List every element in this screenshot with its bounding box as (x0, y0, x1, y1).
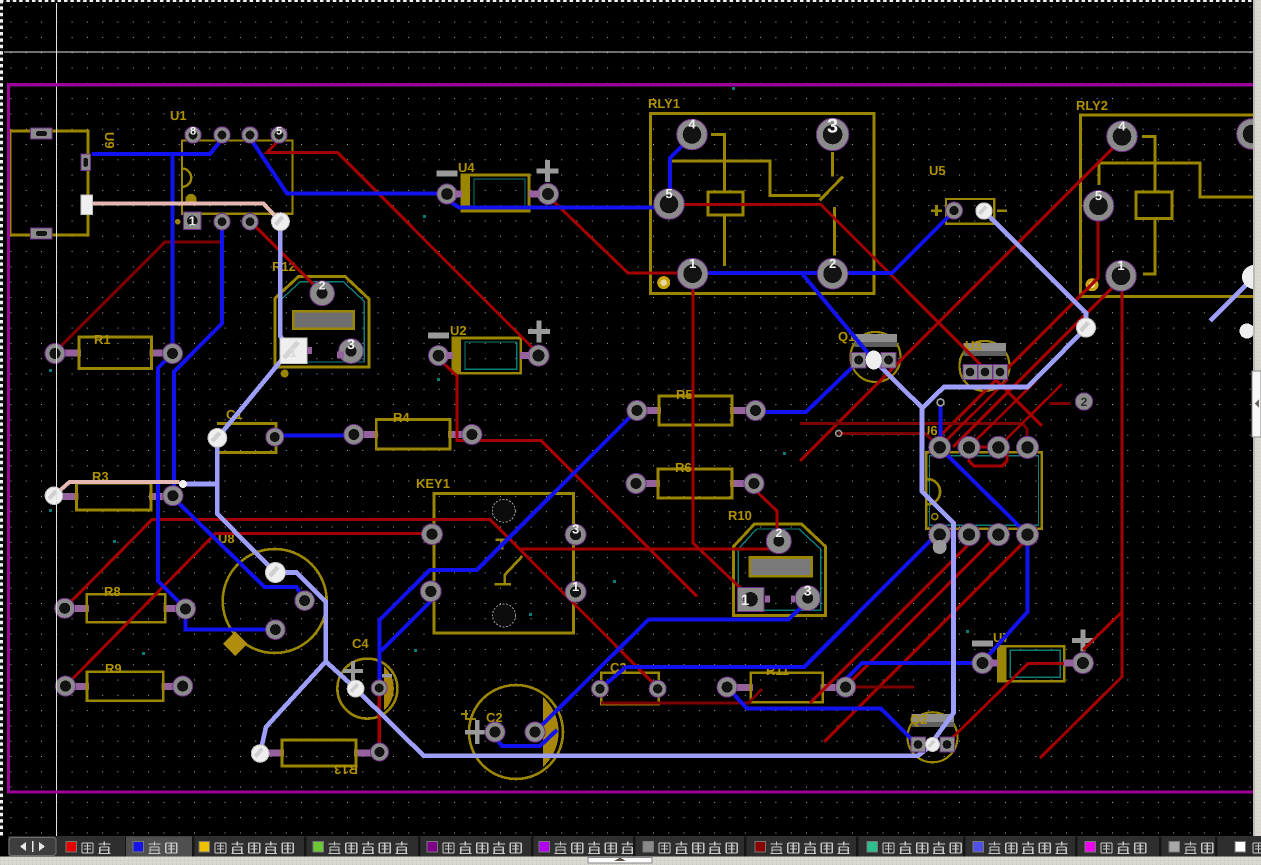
resistor R1 (61, 349, 81, 356)
svg-text:3: 3 (572, 522, 579, 537)
R3 pad2 (163, 486, 183, 506)
wire red U1.5 to U2.+ (267, 140, 538, 353)
C3 pad2 (649, 680, 666, 697)
wire red RLY2.4 diag SW (800, 139, 1122, 461)
wire red short diag to U6.1 (940, 379, 1008, 447)
R13 pad2 (371, 743, 389, 761)
svg-text:1: 1 (572, 579, 579, 594)
wire blue junction to R1.2 (171, 154, 175, 354)
wire blue branch to Q1.2 (802, 273, 872, 358)
U8 pad3 (266, 620, 286, 640)
RLY2 pad1 (1106, 258, 1137, 291)
left ruler strip (0, 0, 3, 836)
R10 pad3 (795, 583, 820, 611)
tab nav arrow box (9, 838, 56, 856)
U6 notch arc (927, 479, 940, 504)
svg-text:5: 5 (276, 126, 282, 138)
U1 pad3 (242, 214, 258, 230)
wire red R11.2 east (846, 686, 914, 689)
white crosshair vertical line (56, 3, 57, 836)
red via (836, 430, 842, 436)
U6 pads top (929, 436, 951, 458)
RLY1 pad4 (677, 117, 708, 150)
R6 pad2 (744, 474, 764, 494)
wire blue R1.2 to U8.3 (158, 354, 273, 630)
svg-text:R5: R5 (676, 387, 693, 402)
RLY1 pad1 (677, 256, 708, 289)
board outline top (magenta) (7, 83, 1253, 86)
R12 olive dot (281, 370, 289, 378)
wire red fan B (846, 535, 998, 688)
KEY1 pad1 (565, 579, 586, 602)
wire red RLY2.1 south (1040, 289, 1122, 758)
wire blue C3.1 to U6.1b (600, 535, 936, 689)
svg-text:U4: U4 (458, 160, 475, 175)
svg-text:3: 3 (804, 583, 812, 599)
U4 plus mark (537, 160, 559, 182)
resistor R6 (642, 480, 660, 487)
svg-text:8: 8 (190, 126, 196, 138)
wire red branch y549 to R10.2 (521, 548, 775, 551)
svg-text:R9: R9 (105, 661, 122, 676)
svg-text:Q2: Q2 (910, 712, 927, 727)
svg-text:R4: R4 (393, 410, 410, 425)
U4 stubs (455, 191, 462, 198)
U3 pad2 (978, 365, 993, 380)
C4 crescent (384, 667, 394, 711)
wire sel U8.1 to C4.1 (275, 573, 355, 689)
U1 pad6 (242, 127, 258, 143)
wire blue U1.2b to R3.2 (174, 225, 222, 495)
U2 minus mark (428, 333, 449, 339)
right scrollbar track (1253, 0, 1261, 865)
resistor R11 (733, 684, 753, 691)
horizontal scrollbar thumb (588, 858, 652, 864)
wire sel T to pink via (184, 482, 217, 487)
svg-text:KEY1: KEY1 (416, 476, 450, 491)
wire red GND bus y518 (65, 520, 658, 689)
U9 right pad (81, 154, 91, 171)
U6 gray blob (933, 540, 947, 554)
C4 plus mark (343, 661, 363, 681)
white pad R13.1 (251, 745, 269, 763)
U2 pad2 (528, 345, 549, 366)
U8 diamond marker (223, 632, 248, 657)
R8 pad1 (55, 598, 75, 618)
wire red U4.+ to RLY1.1 (548, 196, 684, 273)
white pad Q1.2 (866, 351, 882, 370)
resistor R3 (60, 493, 79, 500)
U7 stubs (990, 660, 998, 667)
top ruler dashed line (0, 0, 1261, 2)
R1 pad1 (45, 344, 65, 364)
wire red U2.- to R4.2 (440, 360, 470, 441)
resistor R8 (71, 605, 89, 612)
svg-text:3: 3 (347, 336, 355, 352)
R6 pad1 (626, 474, 646, 494)
cap U7 body (998, 646, 1064, 681)
svg-text:R10: R10 (728, 508, 752, 523)
wire red Q2.3 to U7.2 (947, 664, 1078, 744)
R10 pad1 (737, 587, 764, 611)
R12 pad3 stub (337, 352, 344, 359)
RLY1 pad3 (816, 116, 848, 151)
wire blue KEY1 pad stub (381, 591, 431, 651)
wire red C4.2 to R13.2 (378, 694, 381, 748)
Q1 pad1 (851, 352, 866, 368)
cap U2 body (453, 338, 521, 373)
R11 pad2 (836, 677, 856, 697)
KEY1 pad L1 (422, 524, 443, 545)
thermistor R12 outline (275, 277, 369, 367)
wire red bus y533 (66, 534, 425, 687)
R4 pad1 (344, 425, 364, 445)
wire blue R5.1 to C4.2 (380, 409, 639, 681)
white via RLY area (1077, 318, 1096, 337)
R4 pad2 (462, 425, 482, 445)
wire blue U1.3 to U4.1 (250, 138, 438, 193)
Q2 pad3 (940, 737, 955, 752)
R10 stubs (765, 596, 770, 603)
KEY1 pad3 (565, 522, 586, 545)
wire blue U9.3 to U1.2 (92, 139, 222, 154)
svg-text:4: 4 (1118, 118, 1126, 133)
U1 pin-1 notch arc (182, 169, 191, 187)
RLY1 internal lines (671, 135, 844, 267)
wire red fan C (824, 535, 1031, 742)
wire sel U5.2 to via (984, 211, 1086, 328)
C1 pad2 (266, 428, 284, 446)
cap C3 body (601, 673, 658, 704)
white pad Q2.2 (926, 738, 940, 752)
white pad U1.1net (271, 213, 289, 231)
cap C4 circle (337, 659, 397, 719)
RLY1 yellow via (657, 276, 670, 289)
relay RLY1 outline (651, 113, 874, 293)
wire red bus y424 (800, 424, 1027, 443)
C2 L mark (461, 710, 476, 719)
relay RLY2 outline (1081, 115, 1256, 297)
wire red fan A (810, 535, 978, 703)
U5 minus mark (997, 209, 1007, 212)
bar background (0, 836, 1261, 857)
svg-text:5: 5 (1095, 188, 1102, 203)
wire red U1.2 to R1.1 (55, 225, 222, 352)
connector U9 outline (10, 131, 88, 235)
wire red C3 bottom bus (601, 689, 762, 703)
svg-text:RLY2: RLY2 (1076, 98, 1108, 113)
wire blue C1.2 to R4.1 (275, 434, 354, 438)
U1 pad5 (271, 126, 287, 143)
wire red RLY2.5 diag SW (939, 218, 1098, 437)
RLY2 pad4 (1107, 118, 1138, 151)
C4 pad2 (371, 680, 387, 696)
white pad R3.1 (45, 487, 63, 505)
R5 pad2 (746, 401, 766, 421)
U8 pad2 (295, 591, 315, 611)
RLY2 pad5 (1083, 188, 1114, 221)
wire sel Q1.2 branch (874, 360, 922, 408)
wire blue Q1.1 to R5.2 (757, 361, 859, 412)
C2 pad1 (485, 722, 505, 742)
svg-text:U9: U9 (102, 132, 117, 149)
svg-text:1: 1 (689, 256, 696, 271)
wire red short diag to U6.3 (998, 384, 1062, 447)
RLY2 coil rect (1136, 192, 1172, 219)
C2 pad2 (525, 722, 545, 742)
U9 bottom SMD pad (31, 228, 52, 239)
RLY2 internal lines (1099, 136, 1253, 274)
U1 pad2 (214, 214, 230, 230)
U1 pad8 (185, 126, 201, 143)
wire sel RLY2 corner (1210, 278, 1253, 321)
resistor R4 (360, 431, 378, 438)
transistor Q1 outline (851, 332, 901, 382)
U7 pad2 (1072, 653, 1093, 674)
wire blue U6.1 to U7.1 (940, 448, 1027, 662)
transistor U3 outline (960, 341, 1010, 391)
svg-text:RLY1: RLY1 (648, 96, 680, 111)
C2 plus mark (465, 720, 489, 744)
R12 gray bar (293, 311, 354, 328)
U2 stubs (446, 352, 453, 359)
svg-text:R6: R6 (675, 460, 692, 475)
wire red U6 internal (969, 450, 1007, 466)
resistor R9 (72, 683, 90, 690)
RLY1 pad2 (817, 256, 848, 289)
U5 pad1 (946, 202, 963, 219)
wire blue R11.1 to Q2.1 (727, 687, 913, 740)
KEY1 button hole top (492, 499, 515, 522)
wire sel via to U6 west (922, 328, 1086, 741)
C2 crescent (543, 697, 559, 767)
wire sel C1.1 south (217, 438, 275, 573)
white pad C1.1 (208, 429, 227, 448)
assembly marks (49, 87, 969, 758)
U4 pad1 (437, 184, 457, 204)
RLY1 pad5 (654, 186, 685, 219)
RLY2 right pad partial (1237, 119, 1261, 150)
wire blue U4.1 to RLY1.5 (439, 194, 661, 208)
R12 teal inner (280, 282, 364, 362)
R5 pad1 (627, 401, 647, 421)
cap C2 circle (469, 685, 563, 779)
R9 pad1 (56, 676, 76, 696)
U7 plus mark (1072, 630, 1094, 652)
svg-text:2: 2 (829, 256, 836, 271)
R12 pad2 (310, 279, 335, 306)
wire sel branch to R13.1 (260, 662, 326, 754)
svg-text:5: 5 (665, 186, 672, 201)
wire red RLY1.1 to R10.1 (693, 288, 750, 597)
U2 plus mark (528, 321, 550, 343)
U9 top SMD pad (31, 128, 52, 139)
svg-text:1: 1 (189, 213, 196, 228)
svg-text:U2: U2 (450, 323, 467, 338)
switch KEY1 outline (434, 494, 574, 634)
KEY1 pad L2 (420, 581, 441, 602)
svg-text:3: 3 (827, 116, 838, 138)
svg-text:U5: U5 (929, 163, 946, 178)
U4 pad2 (538, 184, 559, 205)
wire red U1.3 to R12.2 (250, 221, 322, 293)
right scrollbar thumb (1252, 371, 1261, 437)
wire blue C2.2 to R10.3 (535, 601, 808, 732)
C4 minus mark (382, 674, 392, 678)
R10 gray bar (750, 558, 812, 577)
wire red U6 pads 2-3 link (969, 446, 998, 449)
svg-text:R1: R1 (94, 332, 111, 347)
R12 pad3 (339, 336, 364, 364)
wire blue R3.2 to U8.2 (173, 497, 305, 601)
svg-text:U1: U1 (170, 108, 187, 123)
RLY1 coil rect (708, 192, 743, 215)
IC U1 body (182, 141, 293, 214)
svg-text:2: 2 (775, 526, 782, 540)
R9 pad2 (173, 676, 193, 696)
cap U8 circle (223, 549, 327, 653)
wire blue RLY1.4 to RLY1.5 (670, 136, 692, 203)
svg-text:1: 1 (741, 592, 749, 609)
white crosshair horizontal line (4, 52, 1253, 53)
wire red short diag to U6.2 (969, 381, 1036, 447)
gray strip below (0, 857, 1261, 865)
svg-text:R13: R13 (334, 762, 358, 777)
wire red RLY2.1 diag to U6 (953, 279, 1121, 447)
U7 pad1 (972, 653, 993, 674)
white pad U8.1 (265, 563, 285, 583)
U1 orientation dot (185, 194, 196, 205)
R10 teal inner (738, 529, 820, 610)
U9 white pad (81, 195, 93, 215)
wire sel U1 pad to R12.1 (280, 222, 289, 351)
cap U4 body (462, 175, 529, 211)
U1 pad7 (214, 127, 230, 143)
U7 minus mark (972, 641, 993, 647)
wire blue U7.1 west (841, 663, 983, 684)
white pad RLY2 right (1242, 265, 1261, 289)
wire red RLY1.5 east diag (669, 205, 1042, 427)
board outline left (magenta) (7, 83, 10, 793)
wire pink U9 to U1.1 (86, 204, 280, 222)
svg-text:1: 1 (1117, 258, 1124, 273)
R1 pad2 (163, 344, 183, 364)
wire red branch diag SE (457, 441, 697, 597)
pad no.2 ring (1075, 393, 1092, 410)
RLY2 yellow via (1086, 278, 1099, 291)
C3 pad1 (592, 680, 609, 697)
U4 minus mark (437, 171, 458, 177)
via ring (937, 399, 944, 406)
transistor Q2 outline (908, 712, 958, 762)
wire blue RLY1.1-2 to U5.1 (692, 211, 954, 273)
svg-text:2: 2 (1081, 395, 1088, 409)
resistor R13 (266, 750, 284, 757)
wire blue C2.1 link (495, 730, 557, 746)
wire red branch to U7.+ (1083, 612, 1122, 650)
svg-text:1: 1 (289, 344, 297, 360)
thermistor R10 outline (733, 524, 825, 615)
wire red R10.2 to R6.2 (752, 487, 777, 533)
Q2 pad1 (911, 737, 926, 752)
wire sel R12.1 to C1.1 (217, 351, 289, 438)
R10 pad2 (766, 526, 791, 553)
IC U6 body (926, 452, 1042, 528)
U6 pads bottom (929, 524, 951, 546)
U5 outline (946, 199, 994, 224)
U6 teal inner (930, 456, 1039, 526)
Q1 pad3 (881, 352, 896, 368)
R11 pad1 (717, 677, 737, 697)
wire red bus y433 (839, 433, 940, 447)
U3 pad1 (963, 365, 978, 380)
wire sel C4.1 to Q2.2 (356, 689, 933, 756)
wire blue via to U6.1 (939, 406, 943, 447)
svg-text:C4: C4 (352, 636, 369, 651)
wire pink R3.1 bus (54, 482, 180, 496)
svg-text:2: 2 (319, 279, 326, 293)
U6 small ring (932, 514, 938, 520)
U3 pad3 (993, 365, 1008, 380)
KEY1 lever symbol (495, 540, 523, 584)
R8 pad2 (176, 599, 196, 619)
svg-text:4: 4 (688, 117, 696, 132)
KEY1 button hole bottom (493, 604, 516, 627)
white via right edge (1240, 324, 1255, 339)
cap C1 bracket (217, 424, 276, 453)
wire red pad2 stub (1050, 402, 1071, 405)
svg-text:R8: R8 (104, 584, 121, 599)
board outline bottom (magenta) (7, 791, 1253, 794)
U1 pad1 (184, 212, 202, 230)
U5 plus mark (931, 205, 942, 216)
resistor R5 (643, 407, 661, 414)
white pad R12.1 (280, 338, 307, 363)
white mini via (179, 480, 187, 488)
U1 small dot (175, 219, 181, 225)
white pad C4.1 (347, 680, 364, 697)
U2 pad1 (429, 346, 449, 366)
white pad U5.2 (976, 203, 992, 219)
